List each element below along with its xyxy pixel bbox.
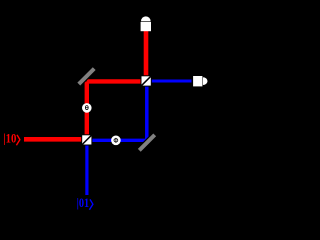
svg-text:|01: |01: [77, 196, 90, 210]
svg-text:|10: |10: [3, 132, 16, 146]
